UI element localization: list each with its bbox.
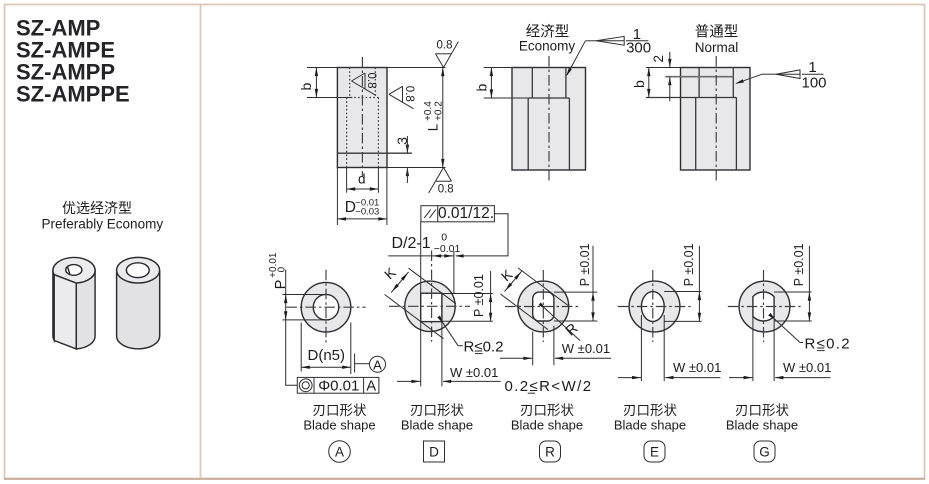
svg-text:刃口形状: 刃口形状: [520, 403, 574, 418]
svg-text:W ±0.01: W ±0.01: [450, 365, 498, 380]
svg-text:b: b: [474, 84, 490, 92]
svg-text:0: 0: [441, 232, 447, 244]
parallelism feature control frame: [421, 206, 495, 222]
svg-text:Blade shape: Blade shape: [726, 418, 798, 433]
svg-text:2: 2: [651, 55, 666, 63]
surface finish 0.8 bottom face: [436, 180, 452, 182]
economy lower bore left: [527, 98, 529, 170]
economy bore step line: [528, 97, 569, 99]
hole E (ellipse): [641, 292, 664, 322]
diagonal construction lines with K dimension: [409, 268, 457, 304]
svg-text:R: R: [545, 444, 555, 459]
svg-text:刃口形状: 刃口形状: [623, 403, 677, 418]
svg-text:Blade shape: Blade shape: [303, 418, 375, 433]
side view body (gray rectangle): [337, 68, 387, 168]
svg-text:0.8: 0.8: [438, 184, 454, 196]
blade shape R figure (rounded square hole): [498, 243, 611, 395]
svg-text:D/2-1: D/2-1: [392, 235, 431, 252]
svg-text:P ±0.01: P ±0.01: [682, 243, 696, 286]
diagonal construction lines with K dimension R: [518, 268, 568, 306]
svg-text:G: G: [759, 444, 770, 459]
dimension D/2-1 with tolerance: [388, 255, 454, 257]
marker D: [424, 441, 445, 462]
svg-text:刃口形状: 刃口形状: [313, 403, 367, 418]
svg-text:+0.01: +0.01: [268, 252, 279, 278]
dimension D(n5) extension lines: [300, 323, 302, 372]
dimension P extension lines G: [774, 291, 812, 293]
svg-text:刃口形状: 刃口形状: [410, 403, 464, 418]
svg-text:P: P: [273, 280, 289, 290]
svg-text:0.8: 0.8: [403, 86, 415, 102]
dimension P extension lines R: [554, 291, 597, 293]
hole G (circle with two flats): [753, 292, 774, 321]
svg-text:刃口形状: 刃口形状: [735, 403, 789, 418]
svg-text:D(n5): D(n5): [308, 347, 346, 364]
svg-text:A: A: [335, 444, 344, 459]
round hole on right pictogram: [126, 263, 149, 278]
bottom land line (3mm): [337, 152, 412, 154]
dimension b (side view): [315, 68, 317, 98]
center lines G: [728, 306, 801, 308]
dimension 2 (taper offset): [668, 59, 671, 68]
column divider line: [200, 5, 202, 479]
dimension P extension lines A: [283, 294, 327, 296]
svg-text:W ±0.01: W ±0.01: [673, 360, 721, 375]
normal bore step line: [646, 97, 737, 99]
dimension P extension lines D: [442, 293, 493, 295]
dimension 3 (land height): [406, 145, 409, 154]
svg-text:Blade shape: Blade shape: [511, 418, 583, 433]
concentricity feature control frame: [297, 377, 379, 393]
hidden bore top section right: [374, 68, 376, 98]
dimension P with tolerance G: [808, 246, 810, 292]
top edge extension to L dimension: [387, 67, 446, 69]
dimension W for E: [640, 315, 642, 381]
svg-text:普通型: 普通型: [695, 23, 739, 40]
economy top bore right: [565, 68, 567, 99]
svg-text:−0.01: −0.01: [434, 243, 461, 255]
svg-text:+0.4: +0.4: [423, 101, 434, 121]
top edge extension line: [307, 67, 338, 69]
svg-text:b: b: [631, 80, 647, 88]
normal top edge extension: [646, 67, 681, 69]
hole left line extended down: [420, 322, 422, 387]
isometric punch with D-cut (left pictogram): [53, 257, 95, 348]
svg-text:b: b: [298, 83, 314, 91]
economy top bore left: [531, 68, 533, 99]
surface finish 0.8 top face: [436, 53, 452, 55]
hidden bore step line: [347, 97, 379, 99]
svg-text:Blade shape: Blade shape: [401, 418, 473, 433]
leader R<=0.2 for D: [443, 322, 459, 345]
bottom edge extension to L dimension: [387, 167, 446, 169]
svg-text:0: 0: [277, 266, 288, 272]
b step extension line: [307, 97, 352, 99]
marker E: [644, 441, 665, 462]
center lines E: [618, 306, 691, 308]
datum A flag: [354, 354, 356, 373]
marker R: [540, 441, 561, 462]
svg-text:0.8: 0.8: [437, 40, 453, 52]
economy step extension: [484, 97, 529, 99]
blade shape D figure (square hole): [381, 205, 508, 386]
svg-text:Economy: Economy: [519, 39, 576, 54]
hidden bore lower section right: [377, 98, 379, 168]
dimension P with tolerance E: [698, 246, 700, 292]
svg-text:3: 3: [394, 137, 410, 145]
blade shape E figure (oval hole): [618, 243, 722, 381]
surface finish 0.8 inside bore: [352, 73, 366, 81]
svg-text:P ±0.01: P ±0.01: [578, 243, 592, 286]
bottom border accent: [4, 478, 925, 480]
marker G: [754, 441, 775, 462]
svg-text:Normal: Normal: [695, 40, 739, 55]
svg-text:P ±0.01: P ±0.01: [472, 274, 486, 317]
taper symbol 1/300 with leader: [596, 36, 624, 45]
dimension d extension lines: [346, 168, 348, 193]
dimension d: [347, 188, 379, 190]
economy lower bore right: [568, 98, 570, 170]
hole right line extended down: [441, 293, 443, 386]
svg-text:+0.2: +0.2: [434, 101, 445, 121]
normal lower bore right: [735, 98, 737, 171]
leader R for corner radius: [545, 309, 580, 341]
svg-text:300: 300: [626, 39, 651, 56]
svg-text:E: E: [650, 444, 659, 459]
dimension P with tolerance D: [490, 271, 492, 294]
dimension b (economy): [490, 68, 492, 99]
blade shape G figure (round hole with flats): [728, 243, 851, 381]
hole D (rectangular): [421, 293, 442, 321]
frame leader to hole flat: [420, 222, 422, 293]
dimension D with tolerance: [337, 218, 387, 220]
hole R (rounded rectangle): [533, 292, 554, 321]
economy top edge extension: [484, 67, 512, 69]
dimension P extension lines E: [664, 291, 701, 293]
svg-text:R≤0.2: R≤0.2: [464, 339, 504, 356]
hidden bore lower section left: [346, 98, 348, 168]
dimension W for D: [397, 380, 421, 382]
svg-text:D: D: [429, 444, 439, 459]
normal lower bore left: [695, 98, 697, 171]
blade shape A figure (round hole): [268, 252, 385, 395]
hidden bore top section left: [349, 68, 351, 98]
dimension D extension lines: [336, 168, 338, 226]
leader to concentricity frame: [286, 320, 298, 385]
svg-text:优选经济型: 优选经济型: [62, 200, 132, 216]
svg-text:P ±0.01: P ±0.01: [792, 243, 806, 286]
svg-text:W ±0.01: W ±0.01: [562, 341, 610, 356]
svg-text:SZ-AMPPE: SZ-AMPPE: [16, 82, 130, 107]
svg-text:Preferably Economy: Preferably Economy: [42, 217, 164, 232]
small hole with flat on left pictogram: [66, 265, 82, 276]
normal top bore left: [698, 68, 700, 98]
normal center line: [715, 56, 717, 182]
center lines R: [505, 306, 578, 308]
dimension L with tolerance: [442, 68, 444, 168]
economy body (gray rectangle): [512, 68, 586, 171]
frame leader right to tangent line: [456, 214, 508, 256]
svg-text:Blade shape: Blade shape: [614, 418, 686, 433]
svg-text:W ±0.01: W ±0.01: [783, 360, 831, 375]
center lines D: [389, 305, 470, 307]
normal taper start line: [665, 76, 733, 78]
dimension D(n5): [301, 366, 351, 368]
svg-text:0.8: 0.8: [365, 73, 377, 89]
svg-text:L: L: [425, 123, 440, 131]
svg-text:100: 100: [801, 75, 826, 92]
leader R<=0.2 for G: [775, 319, 801, 343]
svg-text:1: 1: [808, 59, 816, 76]
normal body (gray rectangle): [681, 68, 751, 171]
economy center line: [548, 56, 550, 182]
center line of side view: [361, 57, 363, 177]
dimension P with tolerance A: [285, 270, 287, 295]
svg-text:Φ0.01: Φ0.01: [318, 377, 359, 394]
dimension W for G: [752, 316, 754, 381]
svg-text:−0.03: −0.03: [355, 206, 379, 217]
svg-text:0.2≤R<W/2: 0.2≤R<W/2: [505, 378, 593, 395]
normal top bore right: [732, 68, 734, 98]
surface finish 0.8 on outer diameter: [389, 86, 403, 94]
dimension b (normal): [648, 68, 650, 98]
svg-text:0.01/12.: 0.01/12.: [438, 205, 494, 222]
svg-text:R≤0.2: R≤0.2: [805, 336, 851, 353]
svg-text:d: d: [358, 171, 366, 186]
fraction 1/100: [802, 73, 824, 75]
svg-text:A: A: [366, 379, 376, 395]
fraction 1/300: [626, 40, 648, 42]
isometric round punch (right pictogram): [117, 257, 160, 348]
center lines A: [286, 306, 365, 308]
marker A: [329, 441, 351, 463]
dimension W for R: [532, 332, 534, 366]
dimension P with tolerance R: [592, 246, 594, 292]
svg-text:A: A: [373, 357, 382, 372]
taper symbol 1/100 with leader: [776, 70, 800, 79]
